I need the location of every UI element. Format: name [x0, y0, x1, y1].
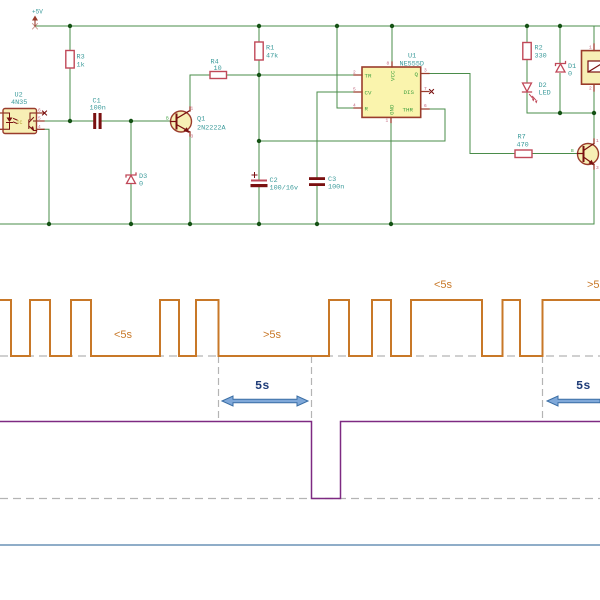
svg-text:VCC: VCC	[390, 70, 397, 81]
svg-text:B: B	[166, 116, 169, 122]
svg-text:1: 1	[589, 45, 592, 51]
svg-text:100/16v: 100/16v	[270, 185, 299, 193]
svg-text:5s: 5s	[576, 379, 590, 393]
svg-text:6: 6	[38, 108, 41, 114]
svg-text:3: 3	[191, 134, 194, 140]
wire Q output to R7 to Q2 base	[429, 74, 578, 154]
svg-text:Q1: Q1	[197, 116, 205, 124]
svg-text:>5s: >5s	[263, 329, 282, 341]
wire GND pin down	[390, 123, 392, 225]
dashed baseline of signal A	[0, 355, 600, 357]
resistor R7	[515, 150, 532, 158]
timer U1	[362, 67, 421, 117]
+5V supply symbol	[32, 16, 38, 30]
svg-text:TR: TR	[365, 73, 372, 80]
dashed marker line x=218.5	[218, 356, 220, 421]
svg-text:7: 7	[424, 86, 427, 92]
svg-text:5: 5	[353, 87, 356, 93]
svg-text:5: 5	[38, 116, 41, 122]
svg-text:LED: LED	[539, 90, 551, 98]
wire R2 branch vertical	[526, 26, 528, 113]
svg-text:1k: 1k	[77, 62, 85, 70]
separator line (blue)	[0, 544, 600, 546]
svg-text:6: 6	[424, 103, 427, 109]
svg-text:>5s: >5s	[587, 279, 600, 291]
svg-text:0: 0	[568, 71, 572, 79]
wire U2 pin4 down to ground rail	[44, 129, 49, 224]
svg-text:2: 2	[353, 70, 356, 76]
svg-text:DIS: DIS	[404, 89, 415, 96]
wire relay coil to rail	[593, 26, 595, 44]
svg-text:1: 1	[596, 138, 599, 144]
transistor Q1	[171, 111, 192, 132]
wire D1 branch vertical	[559, 26, 561, 113]
wire R3 branch vertical	[69, 26, 71, 121]
svg-text:2: 2	[589, 86, 592, 92]
svg-text:THR: THR	[403, 107, 414, 114]
capacitor C1	[93, 113, 96, 129]
wire relay / Q2 collector node row	[527, 91, 594, 224]
wire collector Q1 to R4 to node	[190, 75, 354, 107]
svg-text:R3: R3	[77, 54, 85, 62]
svg-text:330: 330	[535, 53, 547, 61]
svg-text:10: 10	[214, 65, 222, 73]
svg-text:470: 470	[517, 142, 529, 150]
svg-text:B: B	[571, 148, 574, 154]
diode D3 (zener)	[126, 173, 136, 184]
waveform input pulses (orange)	[0, 300, 600, 356]
svg-text:1: 1	[191, 106, 194, 112]
svg-text:<5s: <5s	[114, 329, 133, 341]
svg-text:GND: GND	[389, 104, 396, 115]
wire ground bottom rail	[0, 223, 594, 225]
diode D2 (LED)	[523, 83, 538, 104]
waveform output (purple)	[0, 422, 600, 499]
svg-text:4N35: 4N35	[11, 99, 27, 107]
wire VCC branch vertical	[391, 26, 393, 62]
resistor R3	[66, 51, 74, 69]
wire U2 pin5 row through C1 to Q1 base	[44, 120, 171, 122]
capacitor C2 (polarized)	[251, 180, 267, 182]
svg-text:1: 1	[386, 118, 389, 124]
resistor R2	[523, 43, 531, 60]
relay K1 (clipped at right edge)	[582, 51, 600, 85]
svg-text:+5V: +5V	[32, 9, 43, 16]
wire Q1 emitter down	[189, 136, 191, 224]
arrow 5s (right, clipped at edge)	[547, 396, 600, 406]
diode D1 (zener)	[556, 62, 566, 73]
resistor R4	[210, 72, 227, 79]
wire R1 branch vertical	[258, 26, 260, 224]
svg-text:R: R	[365, 106, 369, 113]
resistor R1	[255, 42, 263, 60]
capacitor C3	[309, 177, 325, 180]
transistor Q2	[578, 144, 599, 165]
svg-text:NE555D: NE555D	[400, 61, 424, 69]
svg-text:CV: CV	[365, 90, 372, 97]
svg-text:100n: 100n	[90, 105, 106, 113]
dashed marker line x=311.5	[311, 356, 313, 421]
svg-text:IC: IC	[17, 120, 23, 126]
optocoupler U2	[3, 109, 37, 134]
svg-text:0: 0	[139, 181, 143, 189]
wire +5V top rail	[35, 25, 600, 27]
wire THR net	[259, 109, 445, 141]
svg-text:<5s: <5s	[434, 279, 453, 291]
svg-text:R2: R2	[535, 45, 543, 53]
svg-text:4: 4	[38, 124, 41, 130]
svg-text:5s: 5s	[255, 379, 269, 393]
svg-text:3: 3	[424, 68, 427, 74]
dashed baseline of signal B	[0, 498, 600, 500]
svg-text:8: 8	[387, 61, 390, 67]
arrow 5s (left, double headed)	[222, 396, 308, 406]
svg-text:Q: Q	[415, 71, 419, 78]
wire reset branch vertical	[337, 26, 354, 108]
svg-text:4: 4	[353, 103, 356, 109]
svg-text:R1: R1	[266, 45, 274, 53]
wire CV net to C3 to ground	[317, 92, 354, 224]
svg-text:100n: 100n	[328, 184, 344, 192]
svg-text:3: 3	[596, 165, 599, 171]
svg-text:47k: 47k	[266, 53, 278, 61]
wire D3 branch	[130, 121, 132, 224]
svg-text:2N2222A: 2N2222A	[197, 125, 226, 133]
svg-text:U1: U1	[408, 53, 416, 61]
dashed marker line x=542.5	[542, 356, 544, 421]
svg-text:R7: R7	[518, 134, 526, 142]
